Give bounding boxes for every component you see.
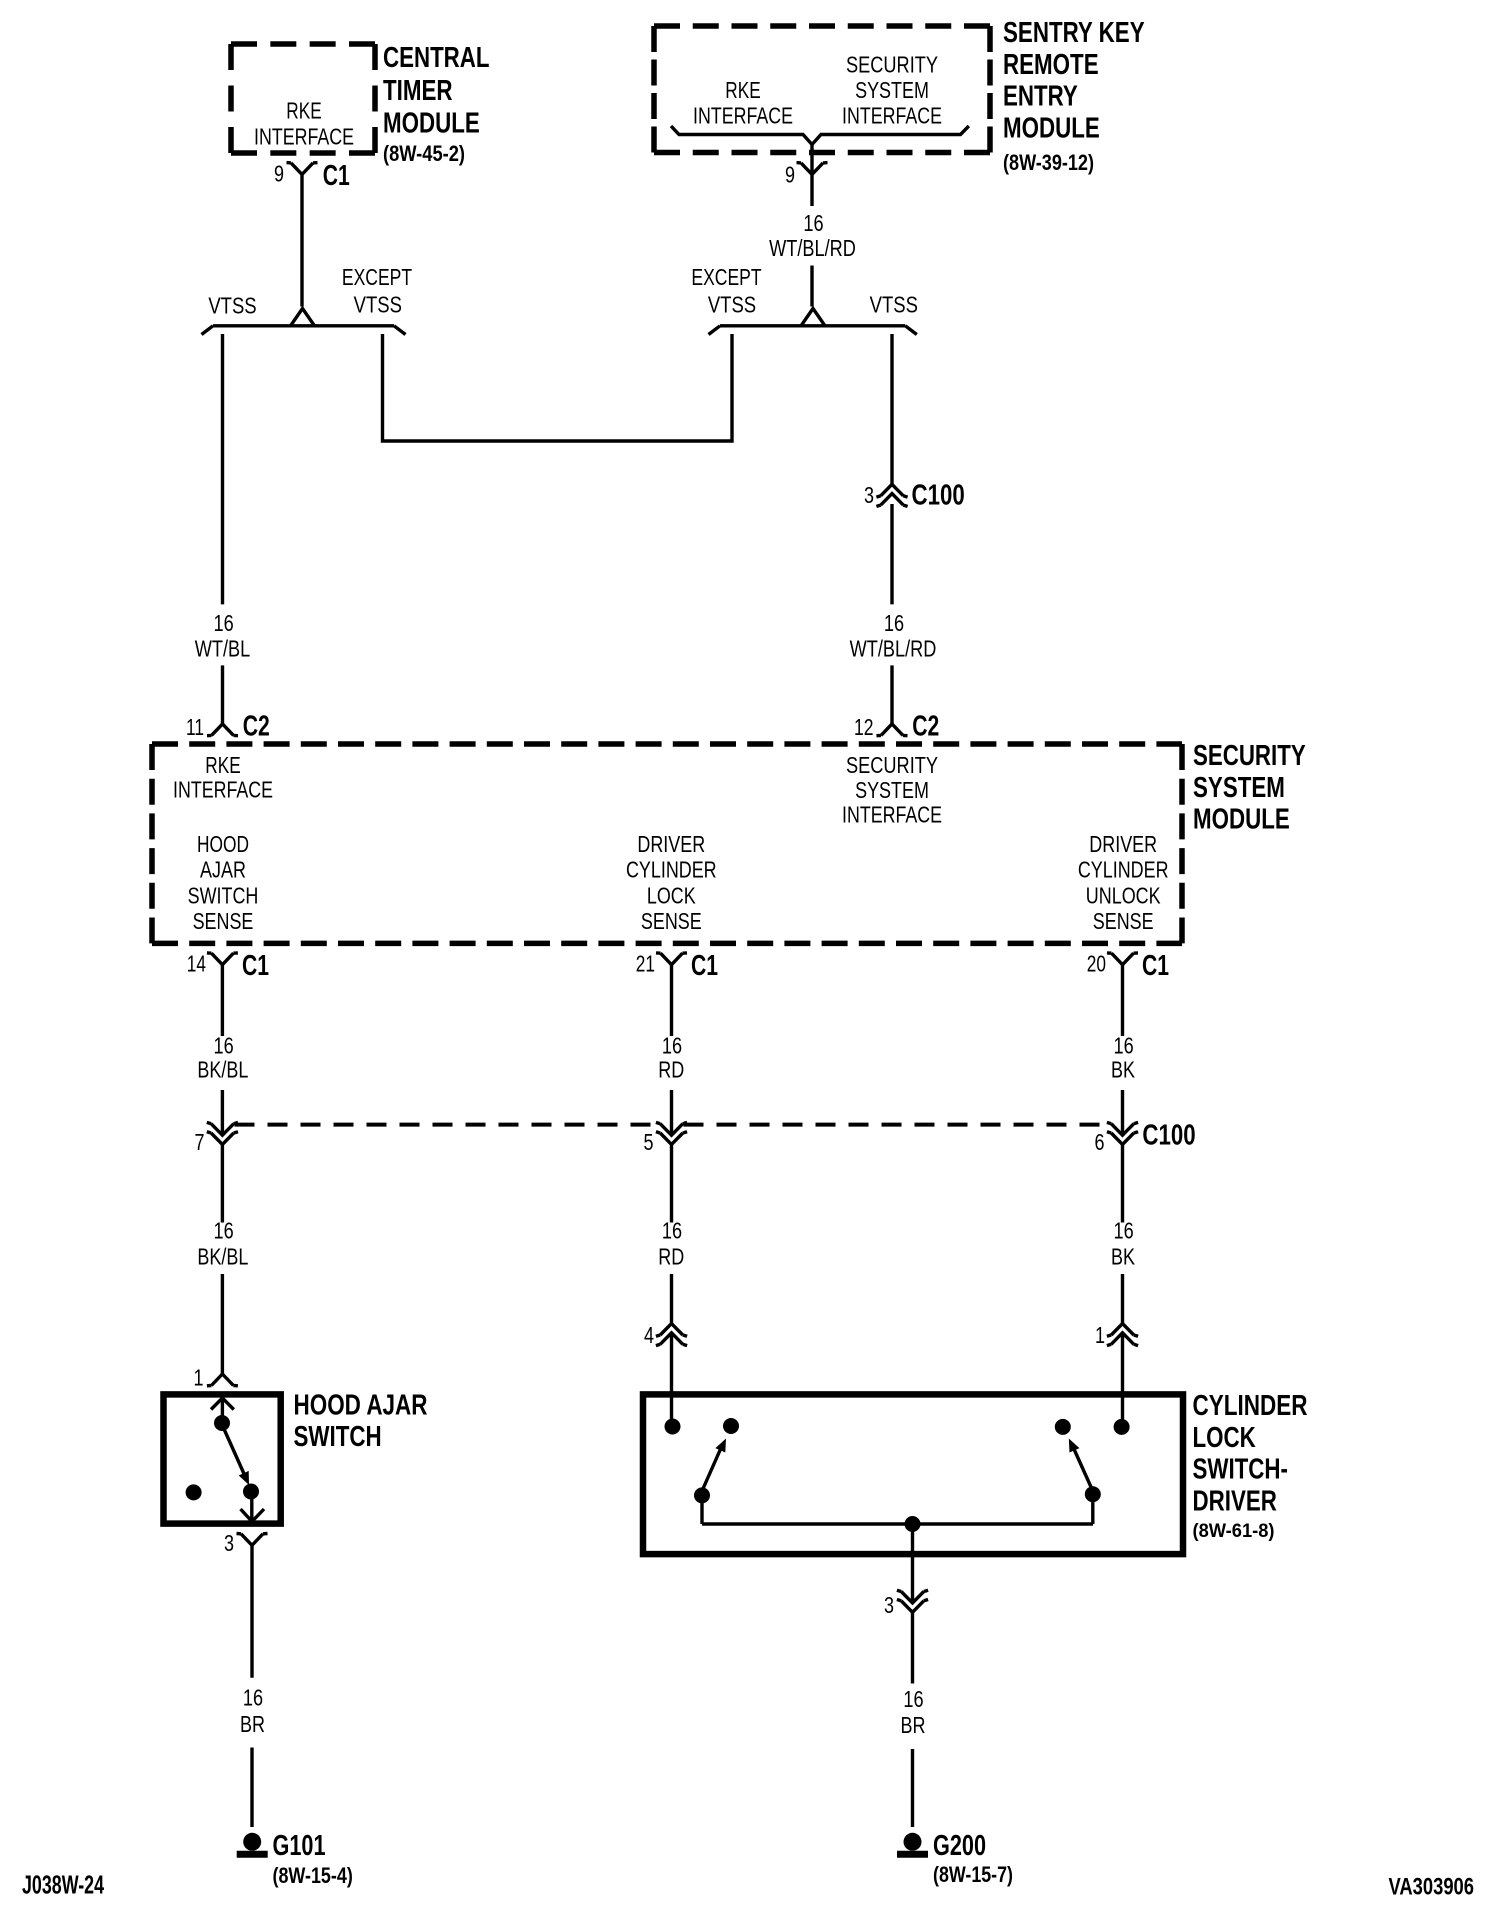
svg-text:C2: C2 — [912, 711, 939, 743]
svg-text:INTERFACE: INTERFACE — [693, 103, 793, 129]
svg-text:J038W-24: J038W-24 — [22, 1870, 104, 1900]
svg-text:MODULE: MODULE — [1193, 804, 1290, 836]
svg-text:16: 16 — [662, 1033, 682, 1059]
wire hood ajar sense (below C1) — [221, 965, 224, 1036]
wire below C100 line (right) — [1121, 1145, 1124, 1223]
svg-text:(8W-61-8): (8W-61-8) — [1193, 1521, 1275, 1542]
svg-text:C1: C1 — [691, 950, 718, 982]
svg-text:CENTRAL: CENTRAL — [383, 42, 490, 74]
connector pin 3 (hood ajar switch) — [224, 1530, 268, 1556]
svg-text:SECURITY: SECURITY — [1193, 740, 1306, 772]
wire into hood ajar switch pin 1 — [221, 1274, 224, 1374]
wire label 16 WT/BL (left branch) — [195, 610, 251, 662]
wire label 16 BK/BL (row 2) — [197, 1218, 248, 1270]
svg-text:EXCEPT: EXCEPT — [691, 264, 761, 290]
svg-text:3: 3 — [224, 1530, 234, 1556]
security system module title — [1193, 740, 1306, 836]
wire exit from common — [911, 1524, 914, 1603]
connector C2 pin 12 — [854, 711, 939, 743]
svg-text:(8W-45-2): (8W-45-2) — [383, 141, 465, 166]
svg-text:LOCK: LOCK — [647, 883, 696, 909]
ground G200 — [897, 1830, 1013, 1887]
svg-text:BK/BL: BK/BL — [197, 1244, 248, 1270]
svg-text:UNLOCK: UNLOCK — [1086, 883, 1161, 909]
wire below C100 line (center) — [670, 1145, 673, 1223]
svg-text:DRIVER: DRIVER — [1089, 831, 1157, 857]
svg-text:VTSS: VTSS — [870, 292, 918, 318]
svg-text:SWITCH: SWITCH — [188, 883, 259, 909]
svg-text:BK: BK — [1111, 1057, 1136, 1083]
common bar — [702, 1522, 1093, 1525]
svg-text:DRIVER: DRIVER — [1193, 1486, 1277, 1518]
svg-text:3: 3 — [864, 482, 874, 508]
svg-text:RKE: RKE — [205, 752, 240, 778]
wire exit inside switch — [250, 1492, 253, 1521]
svg-text:1: 1 — [194, 1364, 204, 1390]
svg-text:HOOD: HOOD — [197, 831, 249, 857]
connector C1 pin 14 — [187, 950, 269, 982]
connector pin 9 (SKREEM) — [785, 145, 828, 188]
inline connector pin 4 — [644, 1322, 687, 1348]
svg-text:INTERFACE: INTERFACE — [842, 802, 942, 828]
wire label 16 RD (row 1) — [658, 1033, 684, 1083]
wire entry into switch — [221, 1397, 224, 1423]
svg-text:RKE: RKE — [286, 98, 321, 124]
svg-text:16: 16 — [1114, 1033, 1134, 1059]
wire into cylinder lock pin 4 — [670, 1274, 673, 1324]
wire label 16 BK (row 1) — [1111, 1033, 1136, 1083]
wire label 16 BK/BL (row 1) — [197, 1033, 248, 1083]
connector C2 pin 11 — [186, 711, 270, 743]
wire entry left contact — [670, 1333, 673, 1420]
wire left lower to bar — [700, 1495, 703, 1524]
inline connector C100 pin 6 — [1095, 1120, 1196, 1156]
svg-text:WT/BL/RD: WT/BL/RD — [769, 235, 856, 261]
svg-text:SENSE: SENSE — [1093, 908, 1154, 934]
wire below cylinder lock switch — [911, 1612, 914, 1683]
contact dot left inner — [723, 1418, 739, 1434]
svg-text:MODULE: MODULE — [383, 108, 480, 140]
junction dot common — [905, 1516, 921, 1532]
connector C1 pin 21 — [636, 950, 718, 982]
wire SKREEM stem (lower) — [810, 266, 813, 307]
svg-text:16: 16 — [214, 1033, 234, 1059]
svg-text:G101: G101 — [273, 1830, 326, 1862]
svg-text:VA303906: VA303906 — [1389, 1874, 1475, 1901]
svg-text:HOOD AJAR: HOOD AJAR — [294, 1389, 428, 1421]
svg-text:1: 1 — [1095, 1322, 1105, 1348]
svg-text:INTERFACE: INTERFACE — [173, 776, 273, 802]
svg-text:G200: G200 — [933, 1830, 986, 1862]
hood ajar switch internals — [186, 1397, 264, 1522]
label EXCEPT VTSS (left splitter) — [342, 264, 412, 317]
svg-text:VTSS: VTSS — [354, 292, 402, 318]
wire label 16 RD (row 2) — [658, 1218, 684, 1270]
svg-text:C1: C1 — [242, 950, 269, 982]
connector pin 1 (hood ajar switch) — [194, 1364, 238, 1390]
svg-text:REMOTE: REMOTE — [1003, 49, 1099, 81]
svg-text:14: 14 — [187, 950, 206, 976]
svg-text:VTSS: VTSS — [208, 293, 256, 319]
contact dot left — [186, 1484, 202, 1500]
svg-text:(8W-15-7): (8W-15-7) — [933, 1862, 1013, 1887]
connector C1 pin 20 — [1087, 950, 1169, 982]
svg-text:9: 9 — [274, 161, 284, 187]
wire label 16 BR (left) — [240, 1685, 265, 1737]
wire into cylinder lock pin 1 — [1121, 1274, 1124, 1324]
wire above C100 line (center) — [670, 1090, 673, 1135]
sentry key remote entry module title — [1003, 17, 1145, 175]
switch arm left with arrowhead — [702, 1448, 721, 1491]
svg-text:21: 21 — [636, 950, 655, 976]
cylinder lock switch-driver title — [1193, 1390, 1308, 1542]
svg-text:BR: BR — [240, 1711, 265, 1737]
hood ajar switch box — [164, 1394, 281, 1523]
wire into C2 pin 12 — [890, 665, 893, 724]
svg-text:SECURITY: SECURITY — [846, 51, 938, 77]
central timer module box — [231, 44, 375, 153]
wire VTSS right branch (upper) — [890, 334, 893, 484]
svg-text:16: 16 — [214, 610, 234, 636]
svg-text:C1: C1 — [1142, 950, 1169, 982]
svg-text:16: 16 — [884, 610, 904, 636]
svg-text:INTERFACE: INTERFACE — [842, 103, 942, 129]
wire entry right contact — [1121, 1333, 1124, 1420]
sentry key remote entry module box — [654, 26, 990, 153]
security system module box — [152, 744, 1182, 943]
svg-text:CYLINDER: CYLINDER — [1078, 857, 1169, 883]
svg-text:CYLINDER: CYLINDER — [1193, 1390, 1308, 1422]
wire label 16 WT/BL/RD (SKREEM stem) — [769, 210, 856, 261]
svg-text:SYSTEM: SYSTEM — [855, 77, 929, 103]
SKREEM internal brace — [671, 126, 969, 145]
contact dot lower — [243, 1484, 259, 1500]
cylinder lock switch-driver box — [643, 1394, 1183, 1554]
wire label 16 BR (right) — [901, 1686, 926, 1738]
svg-text:16: 16 — [662, 1218, 682, 1244]
splitter left (VTSS / EXCEPT VTSS) — [202, 309, 406, 335]
cylinder lock switch internals — [665, 1333, 1130, 1603]
svg-text:(8W-15-4): (8W-15-4) — [273, 1863, 353, 1888]
svg-text:12: 12 — [854, 714, 874, 740]
arrow down at exit — [241, 1509, 265, 1522]
switch arm right with arrowhead — [1074, 1448, 1093, 1491]
svg-text:CYLINDER: CYLINDER — [626, 857, 717, 883]
svg-text:BK: BK — [1111, 1244, 1136, 1270]
svg-text:16: 16 — [803, 210, 823, 236]
svg-text:TIMER: TIMER — [383, 75, 453, 107]
contact dot right outer — [1114, 1419, 1130, 1435]
inline connector C100 dashed line — [235, 1123, 1111, 1127]
wire VTSS left branch down — [221, 334, 224, 604]
wire into C2 pin 11 — [221, 665, 224, 724]
svg-text:RKE: RKE — [725, 77, 760, 103]
inline connector C100 pin 5 — [644, 1122, 688, 1155]
svg-text:6: 6 — [1095, 1129, 1105, 1155]
svg-text:SYSTEM: SYSTEM — [1193, 772, 1285, 804]
svg-text:C2: C2 — [243, 711, 270, 743]
svg-text:ENTRY: ENTRY — [1003, 81, 1078, 113]
svg-text:16: 16 — [903, 1686, 923, 1712]
contact dot right inner — [1055, 1419, 1071, 1435]
svg-text:SENSE: SENSE — [193, 908, 254, 934]
label EXCEPT VTSS (right splitter) — [691, 264, 761, 317]
svg-text:SECURITY: SECURITY — [846, 752, 938, 778]
wire unlock sense (below C1) — [1121, 965, 1124, 1036]
svg-text:(8W-39-12): (8W-39-12) — [1003, 150, 1094, 175]
svg-text:BR: BR — [901, 1712, 926, 1738]
svg-text:SYSTEM: SYSTEM — [855, 777, 929, 803]
inline connector pin 1 (cylinder lock) — [1095, 1322, 1138, 1348]
svg-text:16: 16 — [214, 1218, 234, 1244]
svg-text:SENSE: SENSE — [641, 908, 702, 934]
svg-text:16: 16 — [243, 1685, 263, 1711]
svg-text:INTERFACE: INTERFACE — [254, 123, 354, 149]
wire SKREEM stem (upper) — [810, 174, 813, 206]
svg-text:7: 7 — [195, 1129, 205, 1155]
arrow up at entry — [211, 1398, 234, 1410]
svg-text:LOCK: LOCK — [1193, 1422, 1256, 1454]
wire lock sense (below C1) — [670, 965, 673, 1036]
svg-text:C100: C100 — [1142, 1120, 1195, 1152]
contact dot left outer — [665, 1419, 681, 1435]
wire label 16 BK (row 2) — [1111, 1218, 1136, 1270]
svg-text:C100: C100 — [912, 480, 965, 512]
svg-text:3: 3 — [884, 1592, 894, 1618]
svg-text:SWITCH-: SWITCH- — [1193, 1454, 1289, 1486]
wire EXCEPT VTSS U-link — [383, 334, 733, 441]
inline connector pin 3 (below cylinder lock switch) — [884, 1590, 928, 1618]
switch arm with arrowhead — [224, 1429, 245, 1476]
wire above C100 line (left) — [221, 1090, 224, 1135]
svg-text:MODULE: MODULE — [1003, 113, 1100, 145]
hood ajar switch title — [294, 1389, 428, 1453]
svg-text:SWITCH: SWITCH — [294, 1421, 382, 1453]
svg-text:WT/BL/RD: WT/BL/RD — [850, 636, 937, 662]
svg-text:RD: RD — [658, 1244, 684, 1270]
svg-text:4: 4 — [644, 1322, 654, 1348]
splitter right (EXCEPT VTSS / VTSS) — [709, 309, 917, 335]
svg-text:C1: C1 — [323, 160, 350, 192]
wire right lower to bar — [1091, 1494, 1094, 1524]
svg-text:VTSS: VTSS — [708, 292, 756, 318]
svg-text:16: 16 — [1114, 1218, 1134, 1244]
wire CTM stem — [300, 174, 303, 306]
svg-text:BK/BL: BK/BL — [197, 1057, 248, 1083]
svg-text:AJAR: AJAR — [200, 857, 246, 883]
ground G101 — [237, 1830, 353, 1888]
svg-text:DRIVER: DRIVER — [637, 831, 705, 857]
wire below hood ajar switch — [250, 1545, 253, 1678]
svg-text:WT/BL: WT/BL — [195, 636, 251, 662]
svg-text:SENTRY KEY: SENTRY KEY — [1003, 17, 1145, 49]
svg-text:EXCEPT: EXCEPT — [342, 264, 412, 290]
svg-text:20: 20 — [1087, 950, 1106, 976]
central timer module title — [383, 42, 490, 166]
contact dot left lower — [694, 1487, 710, 1503]
connector C1 pin 9 (central timer module) — [274, 160, 350, 192]
contact dot upper — [214, 1415, 230, 1431]
svg-text:RD: RD — [658, 1057, 684, 1083]
wire above C100 line (right) — [1121, 1090, 1124, 1135]
contact dot right lower — [1085, 1486, 1101, 1502]
wire label 16 WT/BL/RD (right branch) — [850, 610, 937, 662]
svg-text:9: 9 — [785, 162, 795, 188]
svg-text:11: 11 — [186, 714, 204, 740]
svg-text:5: 5 — [644, 1129, 654, 1155]
wire below C100 line (left) — [221, 1145, 224, 1223]
wire to ground G200 — [911, 1749, 914, 1827]
inline connector C100 pin 3 (VTSS branch) — [864, 480, 965, 512]
inline connector C100 pin 7 — [195, 1122, 238, 1155]
wire to ground G101 — [250, 1748, 253, 1828]
wire VTSS right branch (lower) — [890, 504, 893, 604]
